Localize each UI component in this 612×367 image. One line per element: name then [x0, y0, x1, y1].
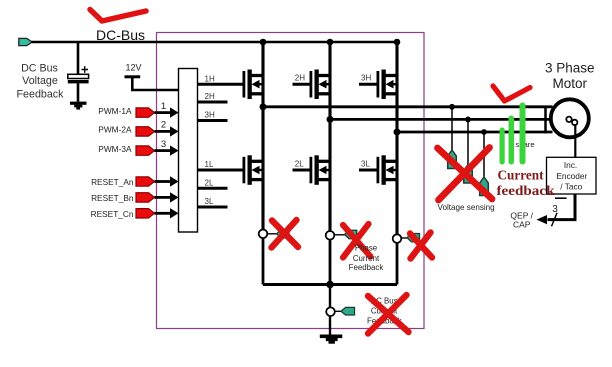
connector PWM-3A	[136, 146, 155, 155]
svg-text:DC-Bus: DC-Bus	[96, 27, 145, 43]
svg-text:RESET_Cn: RESET_Cn	[91, 209, 134, 219]
svg-text:3L: 3L	[205, 197, 214, 206]
wire DC bus rail	[32, 41, 398, 44]
connector PWM-1A	[136, 108, 155, 117]
current sensor S1	[259, 230, 268, 239]
svg-text:Motor: Motor	[553, 76, 588, 91]
wire PWM-2A	[155, 130, 171, 133]
svg-text:3H: 3H	[361, 74, 371, 83]
svg-text:12V: 12V	[125, 63, 141, 73]
svg-text:2L: 2L	[205, 178, 214, 187]
encoder box	[547, 157, 597, 194]
wire motor shaft to encoder	[574, 124, 576, 157]
svg-text:2L: 2L	[295, 160, 304, 169]
wire drain/source Q6 vertical	[395, 132, 398, 234]
power-stage boundary box	[157, 33, 425, 329]
label Current feedback	[497, 169, 555, 200]
label Phase Current Feedback	[349, 243, 384, 272]
svg-text:3H: 3H	[205, 111, 215, 120]
motor shaft glyph	[566, 117, 571, 122]
wire drain/source Q4 vertical	[261, 107, 264, 230]
current sensor S4 (DC bus)	[326, 307, 335, 316]
stray mark under encoder box	[555, 197, 567, 199]
svg-text:Encoder: Encoder	[556, 171, 587, 181]
wire lower leg A to bus	[262, 238, 265, 284]
junction rail node 1	[260, 39, 267, 46]
svg-text:Current: Current	[353, 254, 380, 263]
svg-text:Inc.: Inc.	[564, 160, 577, 170]
wire gate stub Q3	[359, 83, 378, 86]
voltage transducer B	[464, 165, 473, 184]
svg-text:feedback: feedback	[497, 184, 555, 199]
junction sense tap A	[449, 104, 455, 110]
sensor S2 output connector	[345, 230, 357, 238]
wire RESET_Cn	[155, 212, 171, 215]
junction bottom bus	[326, 281, 334, 289]
transistor Q5 (2L)	[310, 155, 331, 185]
label DC Bus Current Feedback	[367, 297, 402, 326]
sensor S1 output connector	[277, 230, 290, 238]
connector RESET_Bn	[136, 193, 155, 202]
label DC Bus Voltage Feedback	[17, 63, 65, 101]
spare channel bar 2	[509, 116, 515, 165]
svg-text:3L: 3L	[361, 160, 370, 169]
transistor Q4 (1L)	[243, 155, 264, 185]
voltage transducer C	[480, 177, 489, 196]
svg-text:1H: 1H	[205, 74, 215, 83]
junction phase A	[260, 103, 267, 110]
junction phase B	[327, 116, 334, 123]
wire cap to ground	[77, 83, 80, 101]
red X over sensor S3	[410, 233, 432, 259]
sensor S3 output connector	[407, 234, 420, 242]
ground GND2	[320, 335, 343, 344]
junction rail node 3	[394, 39, 401, 46]
sensor S4 output connector	[341, 307, 355, 315]
svg-text:Voltage sensing: Voltage sensing	[438, 203, 495, 212]
wire phase C output	[397, 131, 553, 134]
wire drain/source Q1 vertical	[261, 42, 264, 107]
wire 12V to driver	[132, 77, 178, 90]
svg-text:Feedback: Feedback	[349, 263, 384, 272]
driver box U1	[179, 69, 198, 233]
transistor Q2 (2H)	[310, 70, 331, 100]
svg-text:Voltage: Voltage	[22, 75, 58, 87]
svg-text:DC Bus: DC Bus	[21, 63, 58, 75]
red X over sensor S2	[343, 224, 371, 258]
wire gate stub Q6	[359, 169, 378, 172]
svg-text:2H: 2H	[295, 74, 305, 83]
wire gate 3L stub	[198, 206, 228, 209]
junction phase C	[394, 129, 401, 136]
power 12V symbol	[125, 75, 141, 78]
wire RESET_An	[155, 180, 171, 183]
junction rail node 2	[327, 39, 334, 46]
svg-text:1: 1	[161, 101, 166, 112]
transistor Q6 (3L)	[377, 155, 398, 185]
svg-text:2: 2	[161, 120, 166, 131]
wire QEP/CAP	[548, 194, 576, 220]
wire gate 2H stub	[198, 101, 228, 104]
wire sense tap C	[483, 132, 485, 177]
wire PWM-3A	[155, 149, 171, 152]
ground GND1	[70, 102, 87, 110]
red X over voltage sensing	[438, 148, 493, 201]
svg-text:RESET_An: RESET_An	[91, 177, 134, 187]
wire gate 2L stub	[198, 187, 228, 190]
wire drain/source Q3 vertical	[395, 42, 398, 132]
svg-text:3: 3	[161, 139, 166, 150]
spare channel bar 3	[520, 103, 526, 165]
svg-text:PWM-3A: PWM-3A	[98, 144, 132, 154]
bus width slash	[552, 213, 558, 227]
wire phase A output	[263, 105, 553, 108]
capacitor C1 plus sign	[82, 66, 89, 72]
wire RESET_Bn	[155, 196, 171, 199]
svg-text:Phase: Phase	[355, 243, 378, 252]
connector PWM-2A	[136, 127, 155, 136]
wire DC sensor to ground	[329, 316, 331, 335]
transistor Q3 (3H)	[377, 70, 398, 100]
svg-text:Feedback: Feedback	[17, 88, 65, 100]
capacitor C1	[68, 74, 89, 78]
wire sense tap A	[451, 107, 453, 150]
svg-text:Current: Current	[498, 169, 544, 184]
red X over DC bus sensor label	[368, 295, 409, 334]
red check mark 1	[90, 10, 146, 22]
svg-text:CAP: CAP	[513, 220, 531, 230]
wire PWM-1A	[155, 111, 171, 114]
svg-text:RESET_Bn: RESET_Bn	[91, 193, 134, 203]
transistor Q1 (1H)	[243, 70, 264, 100]
wire phase B output	[330, 118, 553, 121]
motor terminal bar	[544, 106, 547, 134]
connector RESET_Cn	[136, 209, 155, 218]
red X over sensor S1	[272, 220, 299, 248]
wire gate 3H stub	[198, 119, 228, 122]
wire bottom bus	[263, 283, 397, 286]
wire gate stub Q2	[293, 83, 311, 86]
wire gate stub Q5	[293, 169, 311, 172]
svg-text:3: 3	[552, 204, 558, 215]
svg-text:PWM-2A: PWM-2A	[98, 125, 132, 135]
wire drain/source Q5 vertical	[328, 119, 331, 231]
wire gate 1H	[198, 83, 244, 86]
wire bus to DC sensor	[329, 285, 331, 308]
wire lower leg C to bus	[396, 243, 399, 285]
connector J1 DC bus input	[19, 38, 32, 45]
junction sense tap C	[481, 129, 487, 135]
svg-text:2H: 2H	[205, 92, 215, 101]
svg-text:PWM-1A: PWM-1A	[98, 106, 132, 116]
red check mark 2	[493, 86, 530, 101]
svg-text:/ Taco: / Taco	[560, 181, 582, 191]
motor M1	[551, 99, 589, 137]
current sensor S3	[393, 234, 402, 243]
spare channel bar 1	[500, 128, 505, 165]
connector RESET_An	[136, 177, 155, 186]
current sensor S2	[326, 231, 335, 240]
wire sense tap B	[467, 119, 469, 164]
svg-text:3 Phase: 3 Phase	[545, 61, 595, 76]
wire gate 1L	[198, 169, 244, 172]
wire drain/source Q2 vertical	[328, 42, 331, 119]
junction sense tap B	[465, 117, 471, 123]
svg-text:1L: 1L	[205, 160, 214, 169]
wire lower leg B to bus	[329, 240, 332, 285]
wire capacitor branch	[77, 42, 80, 75]
voltage transducer A	[448, 150, 457, 169]
